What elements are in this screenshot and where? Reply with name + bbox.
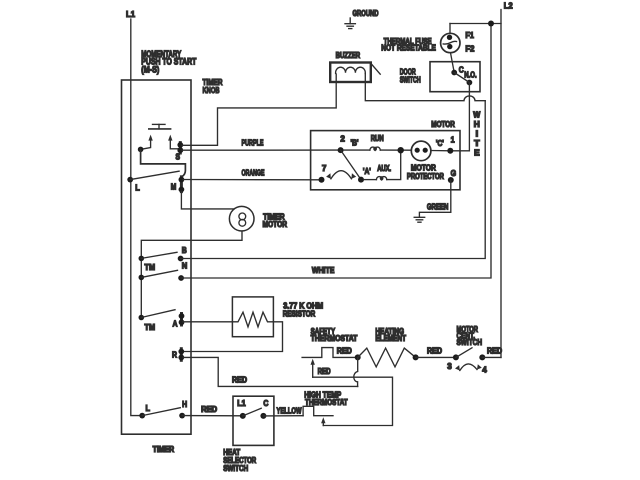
svg-text:N: N xyxy=(182,260,188,270)
label MOTOR PROTECTOR xyxy=(407,163,444,181)
svg-text:NOT RESETABLE: NOT RESETABLE xyxy=(381,44,436,53)
svg-text:G: G xyxy=(451,168,457,178)
svg-text:GREEN: GREEN xyxy=(427,203,449,212)
svg-text:RED: RED xyxy=(201,405,217,414)
svg-text:B: B xyxy=(182,245,187,255)
arc arrow 7-A xyxy=(326,171,356,179)
label RED (below safety arrow) xyxy=(318,367,331,376)
wire N white xyxy=(181,24,491,279)
svg-text:F1: F1 xyxy=(465,30,474,40)
terminal A xyxy=(173,313,185,328)
terminal N xyxy=(178,260,187,281)
svg-text:L2: L2 xyxy=(504,1,513,11)
svg-text:L: L xyxy=(135,182,140,192)
label timer motor xyxy=(263,212,288,229)
label 3 xyxy=(447,361,452,371)
svg-text:'B': 'B' xyxy=(351,139,359,148)
svg-text:THERMOSTAT: THERMOSTAT xyxy=(305,398,348,407)
label TIMER xyxy=(153,445,175,454)
svg-text:YELLOW: YELLOW xyxy=(277,406,302,415)
svg-text:R: R xyxy=(172,350,177,360)
label HEAT SELECTOR SWITCH xyxy=(223,448,256,473)
terminal L dot xyxy=(127,177,140,193)
svg-text:7: 7 xyxy=(322,163,327,173)
label HEATING ELEMENT xyxy=(375,327,406,343)
wire L1 vertical xyxy=(131,19,142,416)
svg-text:GROUND: GROUND xyxy=(353,9,379,18)
timer box xyxy=(122,80,192,434)
label L1 (heat selector) xyxy=(237,399,246,408)
wire C yellow xyxy=(263,415,303,417)
wire A to resistor xyxy=(183,321,232,323)
label PURPLE xyxy=(242,138,264,147)
svg-text:MOTOR: MOTOR xyxy=(431,120,455,129)
svg-text:KNOB: KNOB xyxy=(203,85,220,95)
junction node motor xyxy=(398,147,404,153)
svg-text:MOTOR: MOTOR xyxy=(263,220,288,229)
wire buzzer right with hop xyxy=(365,74,485,101)
svg-text:2: 2 xyxy=(340,134,345,144)
terminal S xyxy=(176,142,184,162)
wire H to heat selector xyxy=(182,415,243,417)
label RED (lower wire) xyxy=(232,376,247,385)
label 4 xyxy=(482,364,487,374)
svg-text:RED: RED xyxy=(337,346,352,355)
label GROUND xyxy=(353,9,379,18)
start switch blade 2-A xyxy=(341,150,361,180)
svg-text:'C': 'C' xyxy=(436,139,444,148)
thermal fuse F1/F2 xyxy=(441,24,460,53)
buzzer xyxy=(330,63,380,83)
svg-text:RUN: RUN xyxy=(371,134,384,143)
wire orange xyxy=(183,179,322,181)
label RED (after switch) xyxy=(487,346,502,355)
label RED (before switch) xyxy=(427,346,442,355)
label 3.77 K OHM RESISTOR xyxy=(283,301,324,318)
svg-text:S: S xyxy=(176,152,181,162)
svg-text:SWITCH: SWITCH xyxy=(457,338,483,347)
svg-text:C: C xyxy=(459,64,464,74)
label MOTOR (box) xyxy=(431,120,455,129)
svg-text:L1: L1 xyxy=(126,9,135,19)
svg-text:SWITCH: SWITCH xyxy=(400,75,421,84)
safety thermostat xyxy=(302,348,358,358)
label 'B' xyxy=(351,139,359,148)
svg-text:TM: TM xyxy=(145,323,156,332)
wire fuse top to L2 xyxy=(450,23,501,25)
label WHITE vertical xyxy=(473,111,480,158)
svg-text:BUZZER: BUZZER xyxy=(336,51,361,60)
svg-text:PURPLE: PURPLE xyxy=(242,138,264,147)
label timer knob xyxy=(203,77,223,95)
terminal 2 xyxy=(338,134,346,153)
label N.O. xyxy=(464,71,477,80)
label WHITE xyxy=(312,266,335,275)
node heating element right xyxy=(413,354,419,360)
push contact arrow right xyxy=(168,135,179,149)
motor cent. switch xyxy=(453,348,485,371)
wire purple xyxy=(182,149,341,151)
terminal R xyxy=(172,349,184,361)
label 'C' xyxy=(436,139,444,148)
label C (door switch) xyxy=(459,64,464,74)
label F1 xyxy=(465,30,474,40)
heat selector switch xyxy=(233,396,274,445)
label F2 xyxy=(465,43,474,53)
label MOTOR CENT. SWITCH xyxy=(457,325,483,347)
resistor R1 box xyxy=(232,297,273,337)
wire safety arrow to high temp loop xyxy=(313,377,393,425)
svg-text:T: T xyxy=(474,139,480,148)
svg-text:AUX.: AUX. xyxy=(377,164,391,173)
aux winding xyxy=(364,150,401,179)
wire fuse to door switch C xyxy=(451,53,455,73)
svg-text:TM: TM xyxy=(145,263,156,272)
cam blade L-H xyxy=(142,408,180,416)
svg-text:M: M xyxy=(171,182,177,192)
label RED (H wire) xyxy=(201,405,217,414)
TM contact N xyxy=(139,270,178,280)
push contact arrow left xyxy=(141,135,153,150)
wire B to buzzer return xyxy=(181,101,486,259)
door switch xyxy=(430,62,480,92)
svg-text:A: A xyxy=(173,319,178,329)
resistor zigzag xyxy=(232,312,273,327)
contact dot left xyxy=(138,147,144,153)
label YELLOW xyxy=(277,406,302,415)
motor box xyxy=(311,131,460,190)
terminal A (motor) xyxy=(358,167,371,182)
svg-text:H: H xyxy=(474,120,480,129)
ground symbol top xyxy=(345,18,355,29)
label BUZZER xyxy=(336,51,361,60)
label GREEN xyxy=(427,203,449,212)
safety thermostat probe arrow xyxy=(311,359,315,377)
heating element xyxy=(358,348,416,367)
terminal 1 xyxy=(447,135,455,154)
svg-text:TIMER: TIMER xyxy=(153,445,175,454)
high temp thermostat xyxy=(303,406,333,415)
wire to motor cent switch xyxy=(416,356,456,358)
svg-text:'A': 'A' xyxy=(363,167,371,176)
TM contact A xyxy=(139,310,176,332)
svg-text:SWITCH: SWITCH xyxy=(223,464,248,473)
label HIGH TEMP THERMOSTAT xyxy=(304,391,347,407)
svg-text:4: 4 xyxy=(482,364,487,374)
svg-text:1: 1 xyxy=(451,135,455,145)
svg-text:E: E xyxy=(474,149,480,158)
svg-text:THERMOSTAT: THERMOSTAT xyxy=(311,334,358,343)
svg-text:N.O.: N.O. xyxy=(464,71,477,80)
wire S to buzzer xyxy=(182,74,336,145)
motor protector U1 xyxy=(411,141,431,161)
svg-text:C: C xyxy=(263,399,268,408)
svg-text:W: W xyxy=(473,111,480,120)
node L1 xyxy=(126,9,135,19)
ground symbol (green) xyxy=(414,217,425,222)
node L2 xyxy=(504,1,513,11)
timer motor xyxy=(229,206,254,231)
wire L2 vertical xyxy=(500,10,502,358)
svg-text:H: H xyxy=(182,399,187,409)
wire G to ground xyxy=(419,180,450,217)
svg-text:RED: RED xyxy=(487,346,502,355)
label AUX. xyxy=(377,164,391,173)
svg-text:3: 3 xyxy=(447,361,452,371)
bottom cam contact L xyxy=(139,403,150,418)
terminal G xyxy=(448,168,457,183)
junction dot white/L2 xyxy=(488,21,494,27)
label THERMAL FUSE NOT RESETABLE xyxy=(381,37,436,52)
high temp probe arrow xyxy=(321,417,325,425)
wire R red lower xyxy=(183,357,358,386)
label momentary push to start xyxy=(141,49,196,75)
label ORANGE xyxy=(242,168,265,177)
terminal M xyxy=(171,177,185,193)
TM contact B xyxy=(139,252,178,271)
wire junction down with hop xyxy=(354,357,358,386)
svg-text:L1: L1 xyxy=(237,399,246,408)
terminal H xyxy=(179,399,187,418)
svg-text:RESISTOR: RESISTOR xyxy=(283,309,316,318)
svg-text:WHITE: WHITE xyxy=(312,266,335,275)
wire timer motor to TM bus xyxy=(141,231,242,318)
svg-text:I: I xyxy=(476,130,479,139)
wire resistor to R xyxy=(183,322,283,352)
terminal B xyxy=(178,245,187,261)
svg-text:RED: RED xyxy=(427,346,442,355)
run winding xyxy=(344,147,412,150)
svg-text:F2: F2 xyxy=(465,43,474,53)
wire M to timer motor xyxy=(181,192,233,209)
svg-text:RED: RED xyxy=(232,376,247,385)
svg-text:L: L xyxy=(146,403,151,413)
svg-text:PROTECTOR: PROTECTOR xyxy=(407,172,444,181)
svg-text:ELEMENT: ELEMENT xyxy=(375,334,406,343)
svg-text:ORANGE: ORANGE xyxy=(242,168,265,177)
terminal 7 xyxy=(319,163,327,183)
svg-text:(M-S): (M-S) xyxy=(141,64,159,74)
wire switch to L2 xyxy=(482,356,501,358)
timer cam blade L xyxy=(130,171,179,179)
wire door switch to motor terminal 1 xyxy=(452,83,469,151)
label RED (safety right) xyxy=(337,346,352,355)
svg-text:RED: RED xyxy=(318,367,331,376)
push-to-start plunger xyxy=(149,124,171,128)
wire protector to terminal 1 xyxy=(431,150,450,152)
label SAFETY THERMOSTAT xyxy=(311,327,358,343)
label RUN xyxy=(371,134,384,143)
junction node (heating element left) xyxy=(355,354,361,360)
wire left contact to M xyxy=(141,149,186,176)
label C (heat selector) xyxy=(263,399,268,408)
label DOOR SWITCH xyxy=(400,68,421,85)
